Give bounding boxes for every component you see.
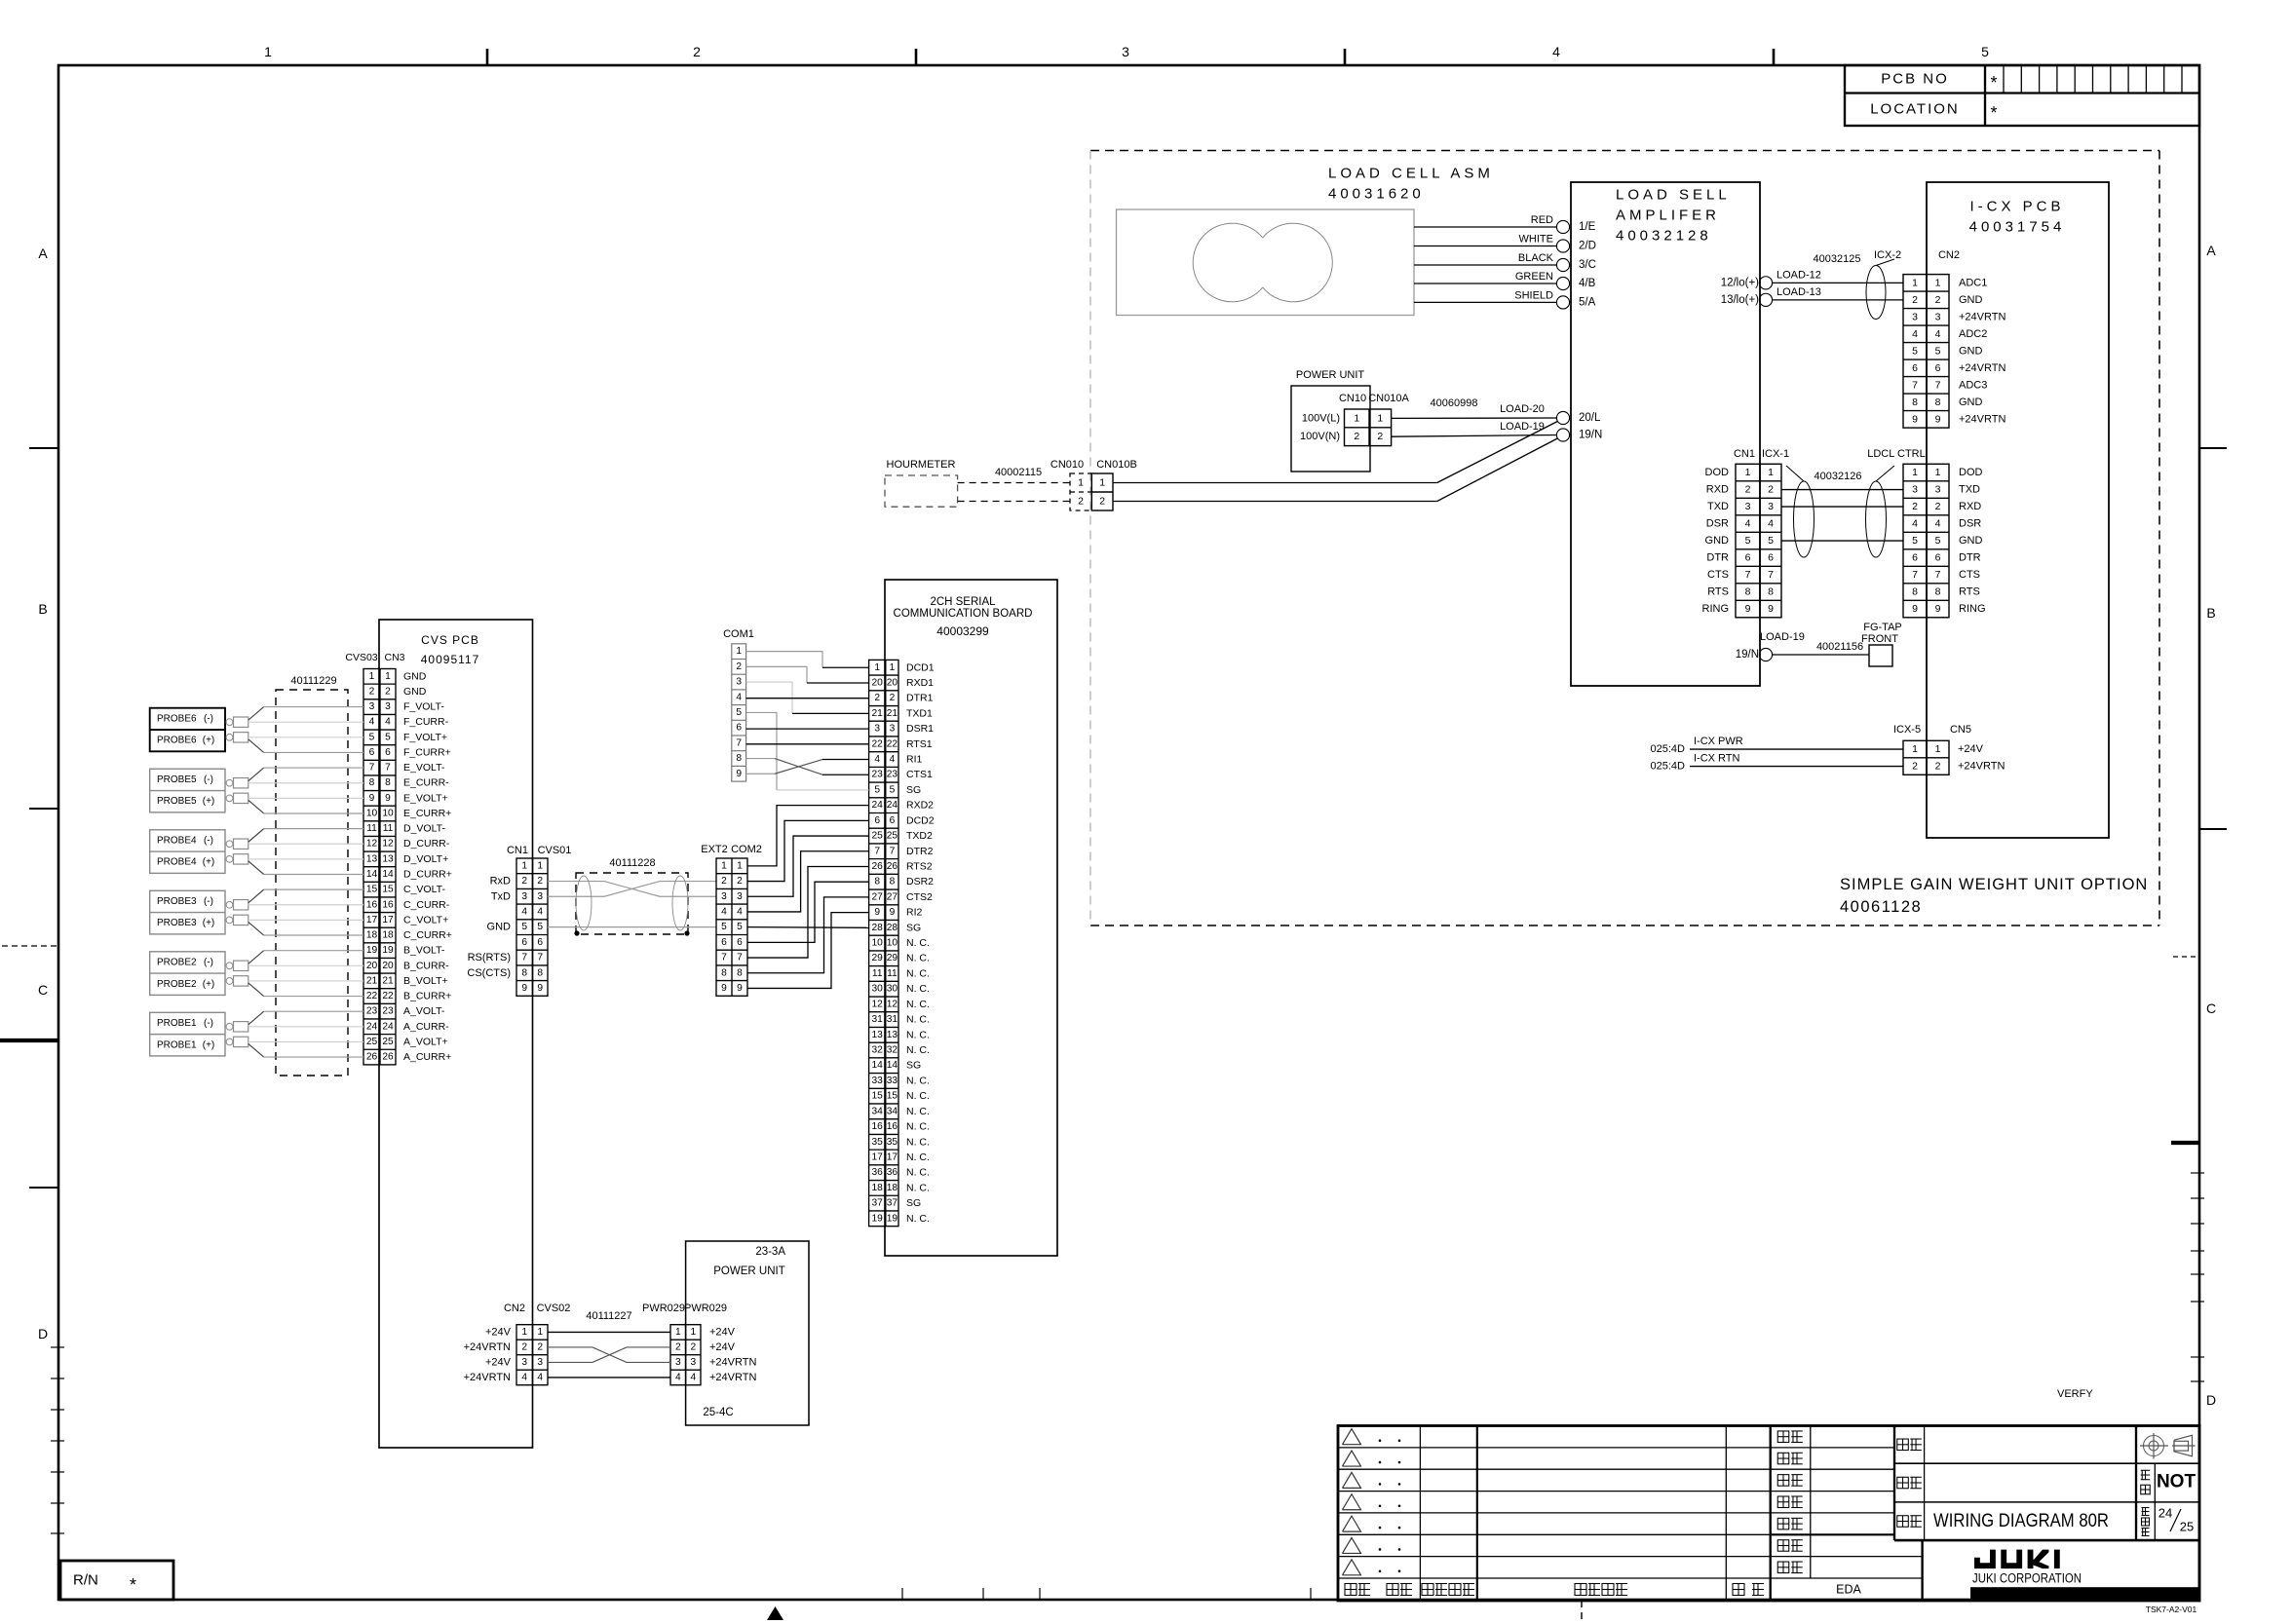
svg-text:RXD2: RXD2 [906, 800, 934, 812]
svg-text:I-CX PCB: I-CX PCB [1969, 199, 2064, 215]
svg-text:CN5: CN5 [1950, 724, 1971, 736]
svg-text:8: 8 [737, 967, 743, 978]
scale cell shakudo [2154, 1463, 2156, 1540]
svg-text:3: 3 [690, 1357, 696, 1368]
svg-text:19/N: 19/N [1579, 430, 1602, 441]
svg-text:N. C.: N. C. [906, 1044, 930, 1056]
svg-text:9: 9 [1745, 603, 1751, 615]
revision triangles and date dots [1343, 1429, 1361, 1445]
svg-text:1: 1 [690, 1327, 696, 1338]
svg-text:14: 14 [887, 1060, 898, 1071]
svg-text:2: 2 [537, 876, 543, 887]
cable 40032126 shield oval right [1866, 481, 1887, 557]
cable 40032125 entry line [1876, 259, 1894, 266]
svg-text:1: 1 [1099, 477, 1105, 489]
svg-text:8: 8 [721, 967, 727, 978]
svg-text:POWER UNIT: POWER UNIT [713, 1265, 784, 1277]
svg-text:SIMPLE GAIN WEIGHT UNIT OPTION: SIMPLE GAIN WEIGHT UNIT OPTION [1840, 876, 2148, 893]
wire COM2-3 to board row 25 [747, 836, 869, 896]
svg-text:4: 4 [737, 906, 743, 917]
svg-text:SG: SG [906, 784, 921, 796]
cable 40032126 entry lines [1786, 466, 1804, 481]
probe PROBE2 plus contact [226, 978, 233, 985]
svg-text:8: 8 [1768, 586, 1774, 598]
revision table row lines [1338, 1447, 1771, 1449]
svg-text:1: 1 [1745, 467, 1751, 478]
svg-text:25-4C: 25-4C [703, 1407, 733, 1418]
load cell body [1117, 209, 1415, 316]
connector COM1 pin table [732, 644, 746, 781]
wire LOAD-19 to FG-TAP [1773, 654, 1869, 656]
probe PROBE1 plus contact [226, 1039, 233, 1045]
svg-text:15: 15 [382, 885, 394, 895]
svg-text:4: 4 [537, 1372, 543, 1382]
svg-text:31: 31 [887, 1014, 898, 1025]
wire COM2-1 to board row 24 [747, 806, 869, 866]
svg-text:3: 3 [1935, 484, 1941, 496]
svg-text:19: 19 [872, 1213, 884, 1224]
wire PROBE3 CURR- [248, 904, 363, 906]
bottom fold dashed line [1581, 1601, 1583, 1624]
svg-text:1/E: 1/E [1579, 221, 1596, 233]
approval label row 2 [1777, 1453, 1789, 1464]
connector LDCL CTRL pin table on I-CX PCB [1903, 464, 1949, 618]
wire PROBE5 VOLT- [248, 768, 264, 781]
svg-text:PROBE6: PROBE6 [157, 713, 197, 724]
approval label row 1 [1777, 1431, 1789, 1443]
svg-text:(+): (+) [203, 918, 215, 928]
svg-text:13: 13 [382, 853, 394, 864]
svg-text:1: 1 [1935, 743, 1941, 755]
svg-text:PROBE2: PROBE2 [157, 979, 197, 990]
svg-text:(-): (-) [204, 957, 213, 967]
approval rows grid [1771, 1447, 1894, 1449]
svg-text:23: 23 [382, 1006, 394, 1017]
approval label row 5 [1777, 1518, 1789, 1530]
svg-text:3: 3 [1912, 311, 1918, 322]
wire I-CX PWR [1690, 748, 1903, 750]
svg-text:1: 1 [1935, 277, 1941, 288]
svg-text:8: 8 [1935, 397, 1941, 408]
svg-text:29: 29 [872, 953, 884, 963]
product info label column [1924, 1426, 1926, 1541]
svg-text:N. C.: N. C. [906, 1213, 930, 1225]
svg-text:3: 3 [1122, 44, 1129, 59]
svg-text:ICX-2: ICX-2 [1874, 249, 1901, 261]
svg-text:40021156: 40021156 [1816, 641, 1863, 653]
svg-text:16: 16 [872, 1121, 884, 1132]
svg-text:A_CURR+: A_CURR+ [403, 1051, 451, 1063]
svg-text:NOT: NOT [2157, 1472, 2196, 1492]
svg-text:CN2: CN2 [1938, 249, 1960, 261]
svg-text:PWR029: PWR029 [684, 1303, 727, 1314]
svg-text:23: 23 [872, 770, 884, 780]
wire I-CX RTN [1690, 766, 1903, 768]
svg-text:16: 16 [366, 899, 378, 910]
load cell wires RED WHITE BLACK GREEN SHIELD [1414, 226, 1556, 228]
svg-text:LOAD-19: LOAD-19 [1760, 631, 1805, 643]
wire PROBE2 CURR+ [248, 983, 264, 997]
svg-text:ICX-5: ICX-5 [1893, 724, 1921, 736]
svg-text:9: 9 [1768, 603, 1774, 615]
svg-text:N. C.: N. C. [906, 1106, 930, 1117]
svg-text:N. C.: N. C. [906, 953, 930, 964]
svg-text:25: 25 [872, 831, 884, 842]
svg-text:34: 34 [887, 1106, 898, 1116]
svg-text:+24VRTN: +24VRTN [709, 1372, 756, 1383]
svg-text:CVS03: CVS03 [345, 652, 377, 663]
probe PROBE4 box [150, 830, 225, 874]
svg-text:I-CX PWR: I-CX PWR [1694, 736, 1743, 747]
svg-text:7: 7 [721, 953, 727, 963]
load cell peanut outline [1193, 223, 1263, 302]
svg-text:COM2: COM2 [731, 844, 762, 855]
part name label (hinmei) [1897, 1516, 1909, 1528]
svg-text:(-): (-) [204, 774, 213, 785]
svg-text:2: 2 [1745, 484, 1751, 496]
svg-text:7: 7 [736, 737, 742, 748]
svg-text:28: 28 [887, 923, 898, 933]
svg-text:40032128: 40032128 [1616, 228, 1712, 245]
svg-text:2: 2 [1099, 496, 1105, 508]
svg-text:HOURMETER: HOURMETER [887, 459, 956, 471]
svg-text:2: 2 [736, 661, 742, 672]
wire PROBE2 VOLT+ [248, 980, 363, 982]
svg-text:DCD2: DCD2 [906, 814, 935, 826]
svg-text:9: 9 [1912, 603, 1918, 615]
svg-text:3: 3 [675, 1357, 681, 1368]
svg-text:025:4D: 025:4D [1651, 743, 1686, 755]
svg-text:WHITE: WHITE [1519, 234, 1553, 245]
left border dashed fold mark [2, 945, 58, 947]
svg-text:+24VRTN: +24VRTN [1959, 413, 2005, 425]
svg-text:4: 4 [874, 754, 880, 765]
svg-text:(-): (-) [204, 1018, 213, 1029]
svg-text:15: 15 [887, 1091, 898, 1102]
svg-text:D_CURR+: D_CURR+ [403, 869, 452, 881]
svg-text:N. C.: N. C. [906, 1075, 930, 1086]
svg-text:32: 32 [887, 1045, 898, 1056]
svg-text:GND: GND [1705, 535, 1730, 547]
svg-text:CVS PCB: CVS PCB [421, 633, 479, 647]
svg-text:CN2: CN2 [504, 1303, 525, 1314]
cable 40111228 dashed box [576, 873, 688, 934]
svg-text:7: 7 [521, 953, 527, 963]
wire COM1-4 to DTR1 [746, 698, 869, 699]
svg-text:RXD1: RXD1 [906, 677, 934, 689]
third angle projection symbol [2144, 1436, 2164, 1456]
power unit 23-3A box [686, 1241, 809, 1425]
svg-text:14: 14 [872, 1060, 884, 1071]
svg-text:25: 25 [382, 1037, 394, 1047]
right border thick fold mark [2171, 1141, 2199, 1145]
svg-text:CN010A: CN010A [1368, 393, 1409, 404]
svg-text:7: 7 [1745, 569, 1751, 581]
probe PROBE6 box [150, 708, 225, 752]
svg-text:*: * [1990, 103, 1997, 123]
svg-text:2: 2 [721, 876, 727, 887]
wire PROBE6 VOLT+ [248, 736, 363, 738]
svg-text:D: D [2206, 1392, 2216, 1408]
svg-text:4: 4 [1912, 328, 1918, 340]
svg-text:B: B [2206, 605, 2215, 621]
svg-text:3: 3 [1935, 311, 1941, 322]
wire PROBE1 VOLT- [248, 1011, 264, 1025]
svg-text:3: 3 [737, 891, 743, 902]
svg-text:18: 18 [887, 1183, 898, 1193]
svg-text:40095117: 40095117 [421, 653, 480, 666]
svg-text:3: 3 [736, 677, 742, 688]
svg-text:CVS02: CVS02 [537, 1303, 571, 1314]
svg-text:A_VOLT-: A_VOLT- [403, 1005, 445, 1017]
svg-text:5: 5 [1745, 535, 1751, 547]
revision header henkou bangou [1422, 1584, 1433, 1596]
svg-text:15: 15 [366, 885, 378, 895]
svg-text:SHIELD: SHIELD [1514, 289, 1553, 301]
svg-text:ICX-1: ICX-1 [1762, 448, 1789, 460]
svg-text:DTR: DTR [1959, 552, 1981, 564]
svg-text:8: 8 [537, 967, 543, 978]
svg-text:RS(RTS): RS(RTS) [468, 952, 511, 963]
svg-text:3: 3 [1745, 501, 1751, 512]
svg-text:9: 9 [537, 983, 543, 994]
wire PROBE1 CURR- [248, 1026, 363, 1028]
svg-text:CN010: CN010 [1050, 459, 1084, 471]
connector EXT2 / COM2 pin table [716, 858, 747, 996]
svg-text:PROBE6: PROBE6 [157, 736, 197, 746]
serial board connector pin table [869, 660, 898, 1226]
svg-text:N. C.: N. C. [906, 1182, 930, 1193]
approval label row 7 [1777, 1562, 1789, 1573]
wire COM1-5 to SG [746, 712, 777, 789]
svg-text:22: 22 [382, 991, 394, 1001]
svg-text:13: 13 [887, 1030, 898, 1040]
amplifier pins 20/L 19/N circles [1556, 411, 1569, 424]
svg-text:16: 16 [382, 899, 394, 910]
SIMPLE GAIN WEIGHT UNIT OPTION dashed boundary [1090, 150, 2159, 152]
svg-text:13: 13 [366, 853, 378, 864]
svg-text:27: 27 [887, 891, 898, 902]
revision header henkou kiji [1575, 1584, 1586, 1596]
svg-text:5: 5 [1935, 345, 1941, 357]
title block bottom black bar [1970, 1587, 2199, 1601]
approval label row 6 [1777, 1540, 1789, 1552]
LOAD SELL AMPLIFER box U-amp [1571, 182, 1760, 686]
svg-text:+24V: +24V [485, 1326, 512, 1338]
svg-text:33: 33 [872, 1076, 884, 1086]
R/N box [60, 1561, 173, 1600]
revision table column lines [1419, 1426, 1421, 1602]
svg-text:5: 5 [537, 922, 543, 932]
svg-text:CN10: CN10 [1339, 393, 1366, 404]
svg-text:LOCATION: LOCATION [1870, 101, 1960, 118]
svg-text:28: 28 [872, 923, 884, 933]
svg-text:21: 21 [872, 708, 884, 719]
svg-text:3: 3 [721, 891, 727, 902]
svg-text:15: 15 [872, 1091, 884, 1102]
svg-text:GND: GND [1959, 294, 1983, 306]
svg-text:6: 6 [890, 815, 896, 826]
svg-text:12/lo(+): 12/lo(+) [1721, 277, 1759, 288]
svg-text:FRONT: FRONT [1861, 633, 1898, 645]
svg-text:(-): (-) [204, 713, 213, 724]
svg-text:C_VOLT-: C_VOLT- [403, 884, 445, 895]
svg-text:11: 11 [383, 823, 394, 834]
svg-text:4: 4 [1935, 328, 1941, 340]
svg-text:5: 5 [1912, 535, 1918, 547]
svg-text:+24VRTN: +24VRTN [709, 1356, 756, 1368]
left border zone ticks [29, 447, 58, 449]
svg-text:8: 8 [369, 777, 375, 788]
svg-text:18: 18 [872, 1183, 884, 1193]
svg-text:5: 5 [369, 732, 375, 742]
svg-text:B_CURR-: B_CURR- [403, 960, 449, 971]
svg-text:1: 1 [1935, 467, 1941, 478]
svg-text:7: 7 [537, 953, 543, 963]
svg-text:37: 37 [872, 1198, 884, 1209]
svg-text:CTS: CTS [1707, 569, 1729, 581]
svg-text:RING: RING [1959, 603, 1986, 615]
svg-text:RI2: RI2 [906, 907, 923, 919]
svg-text:ADC1: ADC1 [1959, 277, 1987, 288]
page label cell [2142, 1507, 2150, 1509]
svg-text:1: 1 [737, 860, 743, 871]
svg-text:3: 3 [1912, 484, 1918, 496]
svg-text:40003299: 40003299 [936, 624, 989, 638]
hourmeter dashed wires [958, 482, 1070, 484]
svg-text:B_VOLT-: B_VOLT- [403, 945, 445, 957]
svg-text:23: 23 [887, 770, 898, 780]
svg-text:6: 6 [721, 937, 727, 948]
svg-text:2: 2 [1912, 294, 1918, 306]
svg-text:1: 1 [369, 671, 375, 682]
svg-text:40111229: 40111229 [290, 675, 336, 687]
svg-text:CTS1: CTS1 [906, 769, 933, 780]
svg-text:R/N: R/N [73, 1572, 98, 1589]
svg-text:4: 4 [537, 906, 543, 917]
probe PROBE5 minus contact [226, 779, 233, 786]
svg-text:3: 3 [1768, 501, 1774, 512]
probe PROBE2 box [150, 952, 225, 996]
svg-text:12: 12 [366, 839, 378, 850]
svg-text:PROBE2: PROBE2 [157, 957, 197, 967]
svg-text:LOAD-20: LOAD-20 [1500, 403, 1545, 415]
wire PROBE5 VOLT+ [248, 797, 363, 799]
svg-text:(+): (+) [203, 736, 215, 746]
cable 40111228 shield oval right [672, 876, 688, 930]
svg-text:1: 1 [537, 1327, 543, 1338]
svg-text:2: 2 [890, 693, 896, 703]
svg-text:26: 26 [887, 861, 898, 872]
svg-text:PROBE4: PROBE4 [157, 857, 197, 868]
wire COM1-3 to TXD1 [746, 682, 792, 713]
svg-text:F_CURR-: F_CURR- [403, 716, 449, 728]
svg-text:GND: GND [1959, 535, 1983, 547]
svg-text:12: 12 [382, 839, 394, 850]
svg-text:GND: GND [1959, 397, 1983, 408]
svg-text:100V(L): 100V(L) [1302, 412, 1340, 424]
svg-text:5/A: 5/A [1579, 296, 1596, 308]
svg-text:A_VOLT+: A_VOLT+ [403, 1036, 448, 1047]
svg-text:6: 6 [1768, 552, 1774, 564]
svg-text:9: 9 [721, 983, 727, 994]
svg-text:GND: GND [403, 686, 427, 698]
svg-text:11: 11 [887, 968, 898, 979]
svg-text:9: 9 [874, 907, 880, 918]
svg-text:1: 1 [890, 662, 896, 673]
svg-text:RTS: RTS [1959, 586, 1980, 598]
right border ruler ticks [2191, 1172, 2204, 1174]
svg-text:1: 1 [1768, 467, 1774, 478]
svg-text:B_CURR+: B_CURR+ [403, 991, 451, 1002]
svg-text:LOAD-13: LOAD-13 [1776, 286, 1821, 298]
svg-text:5: 5 [385, 732, 391, 742]
svg-text:D_CURR-: D_CURR- [403, 838, 450, 850]
svg-text:34: 34 [872, 1106, 884, 1116]
cable 40111229 dashed box [276, 690, 348, 1076]
svg-text:20: 20 [382, 961, 394, 971]
wire COM2-6 to board row 8 [747, 882, 869, 942]
svg-text:5: 5 [737, 922, 743, 932]
svg-text:DSR1: DSR1 [906, 723, 934, 735]
svg-text:13: 13 [872, 1030, 884, 1040]
svg-text:DSR: DSR [1959, 518, 1981, 530]
svg-text:DOD: DOD [1705, 467, 1730, 478]
svg-text:PROBE5: PROBE5 [157, 796, 197, 807]
svg-text:1: 1 [721, 860, 727, 871]
svg-text:CVS01: CVS01 [538, 845, 572, 856]
svg-text:12: 12 [872, 999, 884, 1009]
svg-text:1: 1 [736, 646, 742, 657]
connector ICX-5 / CN5 pin table [1903, 740, 1949, 774]
wire PROBE1 CURR+ [248, 1043, 264, 1057]
svg-text:N. C.: N. C. [906, 983, 930, 995]
PCB NO cell dividers [2003, 65, 2005, 94]
probe PROBE6 plus contact [226, 734, 233, 740]
svg-text:CN1: CN1 [507, 845, 528, 856]
wire COM2-5 to SG straight [747, 926, 869, 929]
svg-text:2: 2 [1935, 294, 1941, 306]
svg-text:3/C: 3/C [1579, 259, 1596, 271]
wire COM1-1 to DCD1 [746, 652, 822, 668]
svg-text:23-3A: 23-3A [755, 1246, 785, 1258]
svg-text:37: 37 [887, 1198, 898, 1209]
svg-text:E_VOLT-: E_VOLT- [403, 762, 445, 774]
svg-text:E_VOLT+: E_VOLT+ [403, 792, 448, 804]
wire COM2-2 to board row 6 [747, 820, 869, 881]
svg-text:2/D: 2/D [1579, 241, 1596, 252]
svg-text:3: 3 [874, 724, 880, 735]
svg-text:20/L: 20/L [1579, 412, 1601, 424]
svg-text:1: 1 [1912, 743, 1918, 755]
svg-text:8: 8 [736, 753, 742, 764]
svg-text:CN010B: CN010B [1096, 459, 1137, 471]
svg-text:5: 5 [1912, 345, 1918, 357]
svg-text:CN1: CN1 [1734, 448, 1755, 460]
cable 40032126 shield oval left [1794, 481, 1814, 557]
svg-text:+24VRTN: +24VRTN [464, 1372, 511, 1383]
svg-text:JUKI CORPORATION: JUKI CORPORATION [1972, 1571, 2082, 1586]
svg-text:+24VRTN: +24VRTN [1959, 362, 2005, 374]
svg-text:33: 33 [887, 1076, 898, 1086]
probe PROBE4 plus contact [226, 855, 233, 862]
svg-text:40032125: 40032125 [1814, 253, 1861, 265]
svg-text:I-CX RTN: I-CX RTN [1694, 753, 1740, 765]
svg-text:E_CURR+: E_CURR+ [403, 808, 451, 819]
svg-text:2: 2 [521, 1341, 527, 1352]
wire PROBE1 VOLT+ [248, 1040, 363, 1042]
svg-text:N. C.: N. C. [906, 1152, 930, 1163]
